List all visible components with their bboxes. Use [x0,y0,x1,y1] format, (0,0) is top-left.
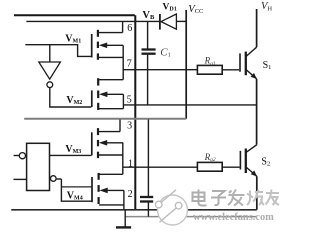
resistor Rg2 [197,162,222,171]
transistor VM3 [92,128,123,158]
svg-text:3: 3 [127,120,132,131]
wire pin7 HO [123,69,197,71]
resistor Rg1 [197,65,222,74]
ground [116,210,131,228]
wire pin6 VB rail [26,20,159,22]
svg-text:2: 2 [128,189,133,200]
wire pin3 hook [119,120,121,132]
wire gate out bottom to VM4 [61,179,91,201]
node J2b vertical [123,190,125,209]
svg-text:6: 6 [127,23,132,34]
wire gate out top to VM3 [50,154,92,156]
wire IC right edge [134,15,136,210]
svg-text:5: 5 [127,94,132,105]
wire COM bottom rail [11,209,256,211]
wire ground rail 2 [125,216,256,218]
watermark chinese 发 [228,190,245,206]
wire inverter branch [49,45,51,62]
wire Rg2 to S2 gate [222,166,240,168]
wire inverter output [50,88,92,107]
watermark chinese 子 [211,191,226,205]
wire input A [25,45,91,57]
transistor VM4 [92,173,124,205]
diode VD1 [160,14,177,30]
wire VB node drop [147,21,149,48]
watermark chinese 电 [193,190,207,206]
svg-text:www.elecfans.com: www.elecfans.com [193,212,274,223]
wire pin5 VS rail [123,104,257,106]
svg-text:7: 7 [127,59,132,70]
wire pin1 LO [123,166,198,168]
inverter U1 [39,62,61,88]
gate U2 [14,143,62,190]
svg-text:1: 1 [128,158,133,169]
node J1 vertical [122,45,124,79]
wire VCC internal rail [24,118,186,120]
watermark chinese 烧 [247,190,264,206]
watermark chinese 友 [266,190,280,206]
wire VCC vertical [185,10,187,119]
capacitor C1 [142,50,156,105]
wire diode to VCC [176,20,186,22]
wire pin6 hook [122,21,124,32]
wire VM4 label box top [61,186,91,188]
transistor VM2 [92,78,124,110]
wire S2 emitter [256,176,258,210]
wire top outer edge [14,14,135,16]
wire C2 top [147,120,149,197]
transistor S2 [240,145,257,177]
node J2 vertical [122,143,124,175]
transistor S1 [240,47,257,79]
wire S1 emitter to S2 collector [256,79,258,145]
node J1b vertical [122,94,124,108]
wire Rg1 to S1 gate [222,69,239,71]
watermark logo [155,190,187,225]
transistor VM1 [92,30,124,60]
wire VH vertical [256,9,258,47]
capacitor C2 [140,197,153,217]
